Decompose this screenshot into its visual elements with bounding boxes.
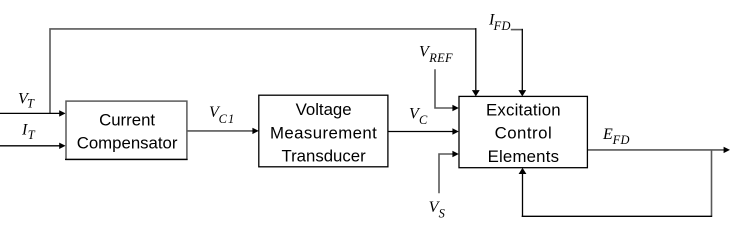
svg-text:E: E (602, 126, 613, 143)
svg-text:REF: REF (428, 51, 453, 65)
svg-text:S: S (439, 207, 445, 221)
svg-text:C: C (419, 113, 428, 127)
svg-text:T: T (28, 128, 36, 142)
svg-text:T: T (27, 97, 35, 111)
svg-text:Voltage: Voltage (296, 100, 352, 119)
svg-text:Current: Current (99, 111, 155, 130)
svg-text:Measurement: Measurement (270, 123, 377, 142)
svg-text:Control: Control (495, 124, 553, 143)
svg-text:Excitation: Excitation (486, 100, 561, 119)
svg-text:Compensator: Compensator (77, 134, 178, 153)
svg-text:Transducer: Transducer (281, 147, 366, 166)
svg-text:FD: FD (493, 19, 511, 33)
svg-text:FD: FD (612, 133, 630, 147)
svg-text:Elements: Elements (488, 147, 560, 166)
svg-text:C1: C1 (219, 112, 236, 126)
